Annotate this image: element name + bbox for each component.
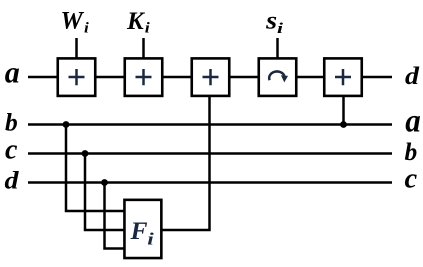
svg-text:d: d (5, 165, 20, 194)
svg-text:F: F (130, 216, 148, 245)
svg-text:a: a (405, 104, 421, 140)
svg-text:b: b (405, 137, 418, 166)
svg-text:K: K (126, 8, 146, 35)
svg-text:i: i (277, 21, 284, 37)
svg-text:i: i (145, 21, 151, 37)
svg-text:c: c (5, 135, 18, 166)
svg-text:s: s (265, 8, 277, 35)
svg-text:i: i (84, 21, 90, 37)
svg-text:W: W (61, 8, 85, 35)
svg-text:a: a (5, 55, 20, 90)
svg-text:b: b (5, 108, 18, 137)
svg-text:i: i (147, 230, 154, 249)
svg-text:c: c (405, 164, 418, 195)
svg-text:d: d (405, 61, 420, 90)
